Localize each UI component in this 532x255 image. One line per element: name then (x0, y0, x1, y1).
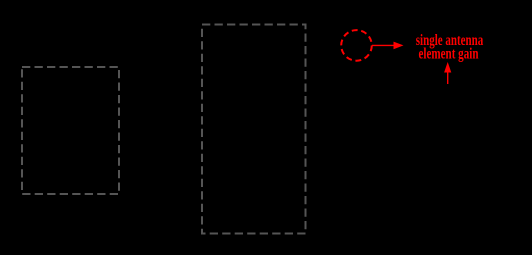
svg-text:element gain: element gain (419, 45, 479, 62)
antenna panel 1 (dashed outline) (22, 67, 119, 194)
arrow pointing up to label (444, 62, 451, 84)
arrow from circle to label (372, 42, 404, 50)
highlight circle around single antenna element (341, 30, 372, 61)
antenna panel 2 (dashed outline) (202, 25, 306, 234)
label: single antenna element gain (416, 32, 484, 62)
